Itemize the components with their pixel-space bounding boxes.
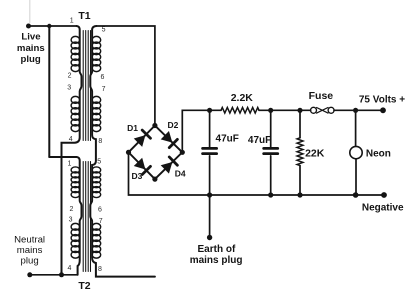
svg-text:Fuse: Fuse <box>309 90 334 102</box>
node: junction cap2 top <box>268 108 273 113</box>
transformer T1 primary winding lower loops <box>71 96 80 131</box>
transformer T1 core <box>83 31 90 141</box>
svg-text:5: 5 <box>102 26 106 33</box>
svg-text:7: 7 <box>99 218 103 225</box>
svg-text:1: 1 <box>70 18 74 25</box>
node: 75V terminal <box>380 107 386 113</box>
svg-text:Live: Live <box>21 31 40 42</box>
node: junction neon bottom <box>353 192 359 198</box>
node: junction earth/cap1 bottom <box>207 192 212 197</box>
svg-text:Negative: Negative <box>362 203 404 214</box>
svg-text:T1: T1 <box>78 10 90 22</box>
transformer T2 secondary winding lower loops <box>92 223 101 258</box>
neon lamp <box>350 110 362 195</box>
node: junction 22K top <box>297 108 302 113</box>
wire: live terminal to T1 pin 1 <box>29 25 77 27</box>
svg-text:6: 6 <box>98 207 102 214</box>
transformer T2 primary winding lower loops <box>71 223 80 258</box>
capacitor 47uF #2 <box>248 110 278 195</box>
node: junction cap1 top <box>207 108 212 113</box>
svg-text:2: 2 <box>70 206 74 213</box>
diode D4 <box>161 157 178 174</box>
wire: bridge left vertex down to negative rail <box>129 152 385 195</box>
svg-text:D2: D2 <box>167 120 178 130</box>
transformer T1+T2 secondary chain: pin5 lead, T1 spine, 8-5 link, T2 spine, pin8 wire to bridge <box>90 26 155 277</box>
svg-text:Neutral: Neutral <box>14 235 45 246</box>
svg-text:3: 3 <box>67 84 71 91</box>
svg-text:mains: mains <box>17 43 45 54</box>
node: junction live / left drop <box>47 24 51 28</box>
label Earth of mains plug <box>190 244 243 266</box>
node: junction cap2 bottom <box>268 192 273 197</box>
capacitor 47uF #1 <box>203 110 239 195</box>
node: Live terminal <box>26 24 31 29</box>
bridge vertex nodes <box>152 123 157 128</box>
svg-text:4: 4 <box>69 136 73 143</box>
diode D3 <box>134 158 151 175</box>
transformer T1 primary lead pin1-spine-pin4 <box>62 26 82 275</box>
label Live mains plug <box>17 31 45 65</box>
wire: positive rail middle <box>259 109 311 111</box>
transformer T2 secondary winding upper loops <box>92 167 101 198</box>
svg-text:Neon: Neon <box>366 149 391 160</box>
svg-text:3: 3 <box>69 217 73 224</box>
svg-text:1: 1 <box>67 160 71 167</box>
bridge rectifier outline <box>129 126 183 180</box>
wire: left vertical live to T2 <box>48 26 50 157</box>
wire: faint scan streak above live terminal <box>29 0 31 23</box>
svg-text:D1: D1 <box>127 123 138 133</box>
svg-text:47uF: 47uF <box>216 133 239 144</box>
node: earth terminal <box>207 235 212 240</box>
wire: earth drop <box>209 195 211 237</box>
wire: positive rail right <box>334 109 383 111</box>
wire: bridge right vertex up to positive rail <box>182 110 221 152</box>
T1 pin labels <box>67 18 105 145</box>
svg-text:6: 6 <box>100 74 104 81</box>
svg-text:7: 7 <box>102 86 106 93</box>
label Neutral mains plug <box>14 235 45 267</box>
wire: T1 pin 5 to bridge top <box>96 26 154 126</box>
transformer T1 secondary winding upper loops <box>92 36 101 71</box>
transformer T1 secondary winding lower loops <box>92 96 101 131</box>
svg-text:8: 8 <box>98 266 102 273</box>
svg-text:mains plug: mains plug <box>190 255 243 266</box>
resistor 2.2K <box>221 108 259 114</box>
svg-text:plug: plug <box>20 54 40 65</box>
transformer T2 core <box>83 162 90 272</box>
svg-text:D3: D3 <box>131 171 142 181</box>
svg-text:5: 5 <box>97 158 101 165</box>
diode D2 <box>161 131 178 148</box>
svg-text:plug: plug <box>21 255 39 266</box>
resistor 22K <box>297 110 325 195</box>
svg-text:2.2K: 2.2K <box>231 92 254 104</box>
diode D1 <box>134 130 151 147</box>
node: Neutral terminal <box>27 272 32 277</box>
T2 pin labels <box>67 158 102 272</box>
svg-text:D4: D4 <box>175 168 186 178</box>
diode labels <box>127 120 186 181</box>
node: junction neon top <box>353 108 358 113</box>
svg-text:75 Volts +: 75 Volts + <box>359 94 405 105</box>
svg-text:mains: mains <box>17 245 43 256</box>
svg-text:Earth of: Earth of <box>198 244 236 255</box>
transformer T2 primary winding upper loops <box>71 167 80 198</box>
svg-text:8: 8 <box>98 138 102 145</box>
fuse F1 <box>311 107 335 113</box>
wire: horizontal to T2 pin 1 <box>49 156 76 158</box>
svg-text:22K: 22K <box>305 148 325 160</box>
node: junction neutral / T1 pin4 drop <box>59 272 64 277</box>
node: junction 22K bottom <box>297 192 302 197</box>
svg-text:T2: T2 <box>78 280 90 292</box>
wire: neutral terminal to T2 pin 4 <box>30 274 78 276</box>
svg-text:47uF: 47uF <box>248 135 271 146</box>
svg-text:4: 4 <box>67 265 71 272</box>
transformer T1 primary winding upper loops <box>71 36 80 71</box>
svg-text:2: 2 <box>68 73 72 80</box>
node: Negative terminal <box>381 192 387 198</box>
transformer T2 primary lead pin1-pin4 <box>77 157 82 275</box>
